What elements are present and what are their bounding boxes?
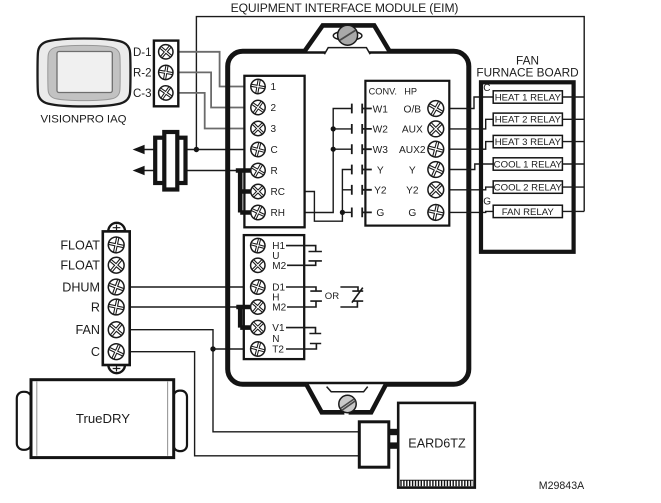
strip screw FAN [105, 319, 127, 341]
node: junction dot C wire [194, 147, 199, 152]
svg-text:EARD6TZ: EARD6TZ [408, 437, 466, 451]
EIM terminal 2 screw [248, 97, 268, 117]
wire FAN RELAY to bus [562, 210, 584, 212]
svg-text:FAN RELAY: FAN RELAY [502, 207, 555, 218]
svg-text:HEAT 3 RELAY: HEAT 3 RELAY [495, 137, 562, 148]
EIM terminal RH screw [248, 203, 267, 222]
wire C to EARD6TZ [130, 352, 360, 456]
connector splice outer shell [155, 138, 185, 183]
wire C-3 to EIM terminal 3 [178, 93, 252, 129]
svg-text:G: G [483, 197, 491, 208]
arrow (lower, points left) [133, 166, 145, 176]
svg-text:TrueDRY: TrueDRY [76, 411, 130, 426]
wire D1 spade [286, 287, 322, 291]
wire: connector to R terminal [185, 170, 236, 172]
svg-text:W1: W1 [373, 104, 389, 115]
svg-text:RH: RH [271, 208, 285, 219]
wire HEAT 1 RELAY to bus [562, 96, 584, 98]
wire W3 branch [333, 148, 352, 150]
EIM lower terminal block [244, 235, 304, 359]
svg-text:3: 3 [271, 124, 277, 135]
lower block screw T2 [249, 340, 267, 358]
disconnect bars row W1 [352, 104, 372, 114]
connector pin lower [389, 442, 398, 448]
wire: title pointer / relay bus (x=584) [196, 17, 584, 212]
disconnect bars row Y2 [352, 185, 372, 195]
wire: upper arrow lead to C [136, 149, 155, 151]
wire HEAT 2 RELAY to bus [562, 118, 584, 120]
svg-text:C-3: C-3 [133, 88, 152, 100]
wire H1 spade [286, 246, 322, 252]
svg-text:W2: W2 [373, 125, 389, 136]
svg-text:AUX: AUX [402, 125, 423, 136]
lower block screw H1 [249, 237, 267, 255]
wire: connector to C terminal [185, 149, 252, 151]
wire RC to G bus [305, 170, 352, 222]
svg-text:M2: M2 [272, 261, 286, 272]
svg-text:W3: W3 [373, 145, 389, 156]
bottom tab notch gap [344, 409, 348, 415]
svg-text:R: R [91, 300, 100, 314]
svg-text:COOL 1 RELAY: COOL 1 RELAY [494, 159, 563, 170]
svg-text:2: 2 [271, 103, 277, 114]
top tab screw wings [333, 31, 362, 40]
svg-text:C: C [271, 145, 278, 156]
lower block screw D1 [249, 278, 267, 296]
svg-text:D-1: D-1 [133, 47, 152, 59]
screw Y [425, 159, 446, 180]
arrow (upper, points left) [133, 145, 145, 155]
disconnect bars row Y [352, 165, 372, 175]
EARD6TZ connector box [359, 422, 389, 467]
dehumidifier terminal strip [103, 231, 130, 365]
svg-text:HEAT 2 RELAY: HEAT 2 RELAY [495, 115, 562, 126]
connector pin upper [389, 429, 398, 435]
wire M2 spade [287, 261, 322, 265]
svg-text:Y: Y [409, 165, 416, 176]
screw O/B [425, 98, 447, 120]
svg-text:FLOAT: FLOAT [60, 238, 100, 252]
disconnect bars row W3 [352, 144, 372, 154]
svg-text:M2: M2 [272, 303, 286, 314]
wire G branch [342, 211, 351, 213]
terminal C-3 screw [156, 83, 176, 103]
EIM left terminal box [244, 76, 304, 228]
screw AUX2 [426, 140, 445, 159]
strip screw R [107, 298, 126, 317]
EIM output block (CONV./HP) [365, 81, 449, 226]
svg-text:M29843A: M29843A [539, 480, 585, 492]
node: junction dot G row [340, 210, 345, 215]
relay HEAT 3 RELAY [493, 135, 562, 148]
TrueDRY right end cap [174, 391, 188, 452]
bottom tab screw [339, 395, 356, 412]
relay COOL 1 RELAY [493, 158, 562, 171]
wire R-2 to EIM terminal 2 [178, 72, 252, 107]
EIM top mounting tab [305, 25, 390, 51]
lower block screw M2 [248, 297, 268, 317]
wire COOL 1 RELAY to bus [562, 163, 584, 165]
relay COOL 2 RELAY [493, 181, 562, 194]
TrueDRY panel lines [37, 382, 168, 456]
svg-text:FAN: FAN [76, 323, 101, 337]
svg-text:OR: OR [325, 291, 339, 302]
node: junction dot W2 [331, 126, 336, 131]
strip screw FLOAT [105, 254, 127, 276]
bottom tab seat notch [327, 385, 368, 392]
alternate connector symbol with slash [340, 287, 363, 307]
EARD6TZ module [398, 403, 475, 488]
connector splice inner plug [164, 132, 177, 190]
screw Y2 [425, 179, 447, 201]
EIM terminal C screw [249, 141, 267, 159]
EIM terminal R screw [248, 161, 268, 181]
svg-text:VISIONPRO IAQ: VISIONPRO IAQ [40, 114, 126, 126]
wire HEAT 3 RELAY to bus [562, 141, 584, 143]
terminal D-1 screw [156, 42, 176, 62]
EARD6TZ pin comb [400, 480, 473, 483]
thick jumper bracket R-RC-RH [236, 171, 252, 213]
TrueDRY body [31, 380, 174, 458]
strip screw FLOAT [107, 236, 126, 255]
wire T2 spade [286, 344, 321, 350]
screw G [426, 203, 445, 222]
wire V1 spade [286, 328, 321, 334]
thermostat bezel [48, 45, 120, 100]
strip screw C [106, 341, 127, 362]
svg-text:O/B: O/B [404, 104, 422, 115]
disconnect bars row G [352, 208, 372, 218]
relay HEAT 2 RELAY [493, 113, 562, 126]
relay HEAT 1 RELAY [493, 91, 562, 104]
EIM terminal 3 screw [248, 118, 268, 138]
svg-text:N: N [272, 334, 279, 345]
svg-text:Y: Y [377, 165, 384, 176]
svg-text:T2: T2 [272, 345, 284, 356]
svg-text:FLOAT: FLOAT [60, 259, 100, 273]
svg-text:R: R [271, 166, 278, 177]
wire M2 (2nd) spade [287, 301, 322, 307]
strip bottom cap [108, 365, 125, 373]
svg-text:1: 1 [271, 82, 277, 93]
wire W2 branch [333, 128, 352, 130]
svg-text:C: C [483, 83, 490, 94]
thermostat VISIONPRO IAQ body [38, 39, 131, 107]
svg-text:COOL 2 RELAY: COOL 2 RELAY [494, 183, 563, 194]
wire FAN to T2 and EARD6TZ [130, 330, 360, 432]
svg-text:C: C [91, 345, 100, 359]
lower block screw M2 [248, 255, 268, 275]
wire: lower arrow lead to R [136, 170, 155, 172]
svg-text:AUX2: AUX2 [399, 145, 426, 156]
EIM enclosure outline [228, 51, 469, 384]
strip top cap screw [113, 225, 121, 231]
relay FAN RELAY [493, 205, 562, 218]
svg-text:G: G [376, 208, 384, 219]
disconnect bars row W2 [352, 124, 372, 134]
EIM bottom mounting tab [306, 384, 386, 412]
strip bottom cap screw [113, 366, 121, 372]
strip screw DHUM [106, 277, 126, 297]
svg-text:HEAT 1 RELAY: HEAT 1 RELAY [495, 92, 562, 103]
svg-text:Y2: Y2 [406, 186, 419, 197]
wires EIM outputs to furnace board relays [443, 97, 493, 109]
svg-text:HP: HP [404, 86, 417, 96]
wire R to M2 jumper [130, 306, 240, 308]
EIM terminal RC screw [248, 181, 268, 201]
EIM terminal 1 screw [250, 78, 267, 95]
svg-text:V1: V1 [272, 323, 285, 334]
wire D-1 to EIM terminal 1 [178, 52, 252, 87]
wire COOL 2 RELAY to bus [562, 186, 584, 188]
svg-text:G: G [408, 208, 416, 219]
terminal block TB1 (thermostat D-1/R-2/C-3) [154, 41, 178, 107]
lower block screw V1 [248, 317, 268, 337]
TrueDRY left end cap [17, 392, 32, 450]
wire RH to W bus [305, 109, 352, 213]
node: junction dot W3 [331, 147, 336, 152]
strip top cap [108, 223, 125, 231]
svg-text:EQUIPMENT INTERFACE MODULE (EI: EQUIPMENT INTERFACE MODULE (EIM) [231, 1, 459, 15]
terminal R-2 screw [157, 64, 174, 81]
svg-text:DHUM: DHUM [62, 280, 100, 294]
thermostat screen [57, 52, 112, 93]
fan furnace board outline [481, 82, 574, 252]
wire Y2 branch [342, 189, 351, 191]
wire DHUM to D1 [130, 286, 252, 288]
node: junction dot FAN/C/T2 [210, 346, 215, 351]
svg-text:CONV.: CONV. [369, 86, 397, 96]
svg-text:RC: RC [271, 187, 285, 198]
top tab seat notch [324, 47, 370, 56]
svg-text:Y2: Y2 [374, 186, 387, 197]
thick jumper bracket M2-V1 [236, 307, 251, 328]
screw AUX [425, 118, 447, 140]
svg-text:FURNACE BOARD: FURNACE BOARD [476, 66, 578, 80]
svg-text:R-2: R-2 [133, 68, 152, 80]
top tab screw [338, 25, 358, 45]
